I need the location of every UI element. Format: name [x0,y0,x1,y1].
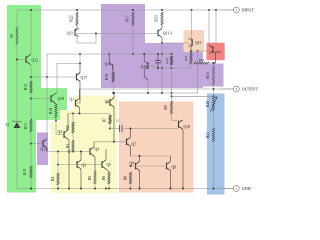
transistor Q11-1 [158,25,172,43]
transistor Q19 [141,54,148,80]
svg-text:R18: R18 [49,108,53,114]
node rail-216 [215,9,217,11]
svg-text:Q4: Q4 [95,148,100,152]
region R16 box (purple) [201,64,224,87]
transistor Q6 [105,93,114,142]
svg-text:R17: R17 [126,15,130,21]
wire Q11 base link [75,33,158,35]
wire em bus y113.5 [68,113,110,115]
node spur-172 [171,95,173,97]
svg-text:R8: R8 [124,176,128,180]
node R7 bottom [109,128,111,130]
transistor Q4 [90,142,99,171]
wire col31 from rail [30,10,32,54]
node R4 top [57,164,59,166]
wire Q15 emitter path [191,10,193,38]
node Q18 base tap [30,98,32,100]
node Q7 col joint [130,128,132,130]
wire R20-R21 [213,111,215,128]
node rail bottom 58 [57,188,59,190]
wire Q8Q9 base tie [131,165,167,167]
wire R10 top [171,54,173,56]
wire Q10 base bus [131,128,179,130]
svg-text:R14: R14 [199,58,205,62]
wire Q3Q5 base tie [58,164,102,166]
zener Z1 [6,121,22,129]
wire Q12 base [17,59,26,61]
node R8 top [130,165,132,167]
wire output net [80,88,234,90]
resistor R16 [206,66,215,85]
terminal 3 OUTPUT [220,86,258,92]
wire R14 to R16 [209,63,214,66]
svg-text:R6: R6 [102,176,106,180]
wire Q19 base stub [148,66,153,69]
svg-text:Q3: Q3 [82,164,87,168]
transistor Q8 [167,156,177,189]
node bus-133 [132,53,134,55]
region protection circuit (salmon) [119,102,194,193]
wire R7 bottom [109,124,111,129]
transistor Q10 [179,120,191,189]
svg-text:Q5: Q5 [107,163,112,167]
wire Q18 base [31,98,51,100]
node rail-77 [76,9,78,11]
svg-text:R1: R1 [10,33,14,37]
node R19 bottom [112,92,114,94]
region Q15 box (salmon) [184,30,205,52]
node rail bottom 139.5 [139,188,141,190]
node Q17 col join [79,63,81,65]
svg-text:R13: R13 [23,169,27,175]
wire Q16 em up [208,10,210,46]
wire R9 spur [172,95,214,97]
transistor Q15 [188,38,201,51]
resistor R15 [184,52,192,64]
capacitor (comp) in mirror [155,54,161,68]
node Q13 base tap [30,143,32,145]
svg-text:R9: R9 [164,105,168,109]
resistor R21 [206,128,215,142]
wire R6 bottom [108,184,110,189]
node rail bottom 81 [80,188,82,190]
node col31 rail [30,188,32,190]
transistor Q5 [102,149,111,172]
wire R2 top stub [72,114,74,123]
node V47-H77 junction [46,76,48,78]
svg-text:R22: R22 [70,15,74,21]
region Q13 box (purple) [37,133,48,166]
svg-text:Q15: Q15 [195,41,202,45]
resistor R12 [24,81,32,93]
wire R10 bottom [171,65,173,68]
svg-text:R5: R5 [88,176,92,180]
svg-text:R19: R19 [105,74,109,80]
transistor Q14 [105,54,114,72]
node y93 162 [161,92,163,94]
node Q1 em join [79,113,81,115]
svg-text:Q12: Q12 [32,59,39,63]
svg-text:R10: R10 [165,58,169,64]
svg-text:Q9: Q9 [129,162,134,166]
transistor Q7 [127,129,137,157]
transistor Q9 [129,156,139,189]
svg-text:Q7: Q7 [132,143,137,147]
wire mirror bus salmon [131,155,171,157]
node R2 top [72,113,74,115]
wire Q17 base [31,76,77,78]
wire R15 bottom [190,64,192,68]
svg-text:R21: R21 [206,132,210,138]
node rail bottom 109 [108,188,110,190]
node rail bottom 130.5 [130,188,132,190]
node V58 bus tap [57,151,59,153]
resistor R13 [23,166,32,178]
resistor R9 [164,101,173,114]
svg-text:R16: R16 [206,72,210,78]
transistor Q17 [77,64,88,104]
node rail bottom 170.5 [170,188,172,190]
node rail bottom 106 [105,188,107,190]
wire R4 stub [57,152,59,174]
node R16 top [213,62,215,64]
node rail bottom 31 [30,188,32,190]
svg-text:Q16: Q16 [216,50,222,54]
node y93 Q6 [113,92,115,94]
node Q19 col [143,53,145,55]
wire R20 top [213,89,215,97]
wire col162 down [161,43,163,93]
resistor R20 (variable) [206,97,217,113]
resistor R22 [70,12,79,25]
node rail-209 [208,9,210,11]
node rail-193 [191,9,193,11]
transistor Q1 [69,89,80,114]
wire Q7 base bus [94,141,127,143]
svg-text:INPUT: INPUT [242,7,255,12]
node out-211 [213,88,215,90]
resistor R4 [51,173,59,185]
wire bottom rail [17,188,234,190]
svg-text:Q14: Q14 [105,63,112,67]
wire R7 top [109,114,111,116]
region bandgap reference (green) [7,5,67,193]
wire purple lower bus y68 [153,67,191,69]
svg-text:Q10: Q10 [184,125,191,129]
node Q6-Q7 link [113,141,115,143]
wire V47 col [46,54,48,139]
node spur-211 [213,95,215,97]
resistor R5 [88,171,96,184]
resistor R10 [165,56,173,65]
wire col216 [215,10,217,43]
node rail-31 [30,9,32,11]
node y93 Q19 [147,92,149,94]
wire Q15 base link [162,42,192,44]
wire R2-R3 [72,133,74,140]
node Q3 col tap [80,151,82,153]
node lbus-172 [171,67,173,69]
node Q11 base-col tie [95,33,97,35]
svg-text:C1: C1 [116,119,120,123]
crossover hop [68,150,70,152]
svg-text:GND: GND [242,186,251,191]
wire R16 down [213,85,215,89]
wire R8 bottom [130,184,132,189]
node Q15 col-R15 tap [190,50,192,52]
wire col31 R11-R13 [30,132,32,166]
node rail bottom 69 [68,188,70,190]
svg-text:R11: R11 [24,123,28,129]
wire Q13 base [31,143,43,145]
wire col31 below Q12 [30,65,32,81]
node lbus-162 [161,67,163,69]
transistor Q16 [209,45,222,63]
svg-text:Q19: Q19 [141,65,148,69]
node R21 bottom [213,188,215,190]
wire R9 bottom [172,114,183,121]
resistor R6 [102,172,110,184]
wire purple bus y54 [47,53,172,55]
svg-text:R20: R20 [206,101,210,107]
resistor R3 [66,140,74,152]
svg-text:Q11: Q11 [67,32,73,36]
capacitor C1 [110,119,131,133]
wire mid bus y93 [113,92,197,94]
wire R5 bottom [94,184,96,189]
wire base mirror bus y151.5 [47,151,90,153]
transistor Q2 [57,114,69,189]
svg-text:Q8: Q8 [172,166,177,170]
node bus-162 [161,53,163,55]
wire Q19 em down [147,80,149,93]
node rail bottom 183 [182,188,184,190]
wire Q17 col to bus [79,54,81,64]
wire col31 R12-R11 [30,93,32,119]
node R3 bottom [72,151,74,153]
wire R17 down [132,26,134,55]
node R18 bottom [55,120,57,122]
transistor Q3 [77,152,86,189]
svg-text:Q6: Q6 [105,100,110,104]
svg-text:R23: R23 [155,15,159,21]
svg-text:Q13: Q13 [41,148,48,152]
resistor R14 [194,58,209,64]
region error amplifier (yellow) [51,96,117,194]
wire R19 down [112,82,114,93]
node lbus-158 [157,67,159,69]
terminal 1 INPUT [220,7,254,13]
resistor R1 [10,27,18,45]
region current mirror (purple) [101,4,203,88]
resistor R23 [155,12,164,25]
svg-text:R12: R12 [24,84,28,90]
node R12 top node [30,76,32,78]
resistor R17 [126,12,135,26]
node bus-158 [157,53,159,55]
wire left column upper [16,10,18,27]
svg-text:R7: R7 [103,118,107,122]
wire left column lower [16,128,18,189]
node y93 170 [171,92,173,94]
transistor Q12 [26,54,38,65]
resistor R11 [24,119,32,132]
wire col31 to rail [30,178,32,189]
wire R10-R9 link [171,68,173,101]
svg-text:Q11-1: Q11-1 [163,32,172,36]
wire R14 left lead [191,62,194,64]
svg-text:R4: R4 [51,177,55,181]
svg-text:Q2: Q2 [57,130,62,134]
svg-text:Q18: Q18 [58,97,65,101]
wire R21 bottom [213,142,215,189]
wire R6 top [108,171,110,174]
node Q11-1 em node [161,42,163,44]
node Q16 base tap [197,50,199,52]
node rail-162 [161,9,163,11]
wire left column mid [16,45,18,123]
resistor R7 [103,115,112,124]
wire V199 link [197,51,199,93]
svg-text:Q17: Q17 [81,76,88,80]
region Q16 box (red) [207,43,225,61]
resistor R2 [66,122,74,133]
wire Q16 base [191,50,213,52]
node rail-133 [132,9,134,11]
transistor Q18 [51,93,64,105]
node rail bottom 95 [94,188,96,190]
node bus-80 [79,53,81,55]
svg-text:OUTPUT: OUTPUT [242,86,259,91]
svg-text:Q1: Q1 [69,98,74,102]
svg-text:R15: R15 [184,55,188,61]
node Q14 col [108,53,110,55]
wire top rail [17,9,234,11]
wire Q18 collector up [57,64,80,93]
node Q12 base tap [16,59,18,61]
svg-text:R3: R3 [66,144,70,148]
svg-text:Z1: Z1 [6,123,10,127]
wire R4 bottom [57,185,59,189]
terminal 2 GND [220,186,250,192]
transistor Q13 [41,139,48,152]
wire R18 to Q2 base [55,118,57,135]
node Q9 col join [139,155,141,157]
resistor R19 [105,72,114,82]
wire Q2 base [56,134,64,136]
region output divider (blue) [207,94,225,195]
node bus-172 [171,53,173,55]
resistor R18 [49,104,57,118]
resistor R8 [124,172,132,184]
transistor Q11 [67,25,96,43]
